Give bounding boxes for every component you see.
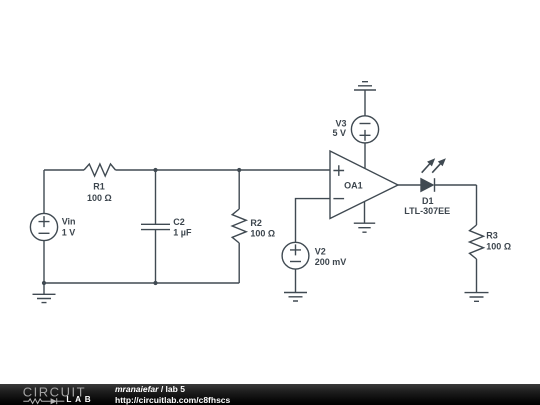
svg-text:R2: R2: [250, 218, 262, 228]
svg-text:100 Ω: 100 Ω: [250, 228, 275, 238]
svg-text:D1: D1: [422, 196, 434, 206]
svg-text:100 Ω: 100 Ω: [486, 242, 511, 252]
svg-text:V2: V2: [315, 246, 326, 256]
svg-text:5 V: 5 V: [332, 128, 346, 138]
svg-text:LTL-307EE: LTL-307EE: [404, 206, 450, 216]
svg-text:200 mV: 200 mV: [315, 257, 347, 267]
svg-text:1 µF: 1 µF: [173, 228, 192, 238]
svg-text:1 V: 1 V: [62, 228, 76, 238]
svg-text:100 Ω: 100 Ω: [87, 193, 112, 203]
svg-text:LAB: LAB: [66, 395, 94, 404]
svg-text:R1: R1: [93, 182, 105, 192]
svg-text:Vin: Vin: [62, 217, 76, 227]
svg-text:C2: C2: [173, 217, 185, 227]
svg-text:OA1: OA1: [344, 181, 363, 191]
svg-text:R3: R3: [486, 231, 498, 241]
